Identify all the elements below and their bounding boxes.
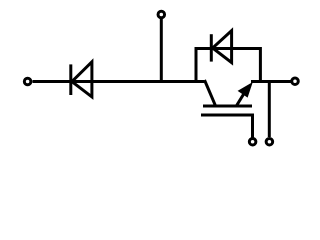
terminal bottom left (gate) [249,138,256,145]
wire right horizontal [251,80,291,83]
IGBT gate lead [201,115,253,138]
IGBT emitter lead [236,87,248,107]
wire to top terminal [160,19,163,83]
terminal top [158,11,165,18]
diode D2 cathode bar [210,34,213,61]
diode D1 cathode bar [69,64,72,95]
freewheel diode loop wire [196,49,260,84]
IGBT collector lead [205,80,216,105]
IGBT emitter arrowhead [238,82,253,98]
wire to bottom emitter terminal [268,82,271,137]
terminal bottom right (emitter) [266,138,273,145]
wire main horizontal [33,80,205,83]
terminal left [24,78,31,85]
diode D1 triangle [72,62,92,97]
diode D2 triangle [213,31,232,63]
terminal right [292,78,299,85]
IGBT body bar [203,105,252,108]
